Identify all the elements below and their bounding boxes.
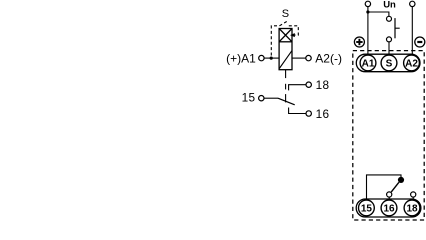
contact lever to NC [391, 182, 399, 192]
svg-text:S: S [386, 59, 393, 70]
fixed contact 18 stub and wire [289, 85, 306, 91]
terminal 16 [381, 200, 397, 216]
svg-text:S: S [282, 8, 289, 20]
polarity minus symbol [415, 37, 425, 47]
top terminal stadium block [356, 54, 420, 71]
junction dot on supply wire [366, 10, 369, 13]
switch S actuator tick [395, 27, 400, 29]
svg-text:Un: Un [383, 0, 396, 11]
wire A2 [292, 57, 306, 59]
supply terminal circle right (-) feed [410, 1, 415, 6]
delay diagonal inside coil body [279, 51, 292, 69]
terminal 18 [404, 200, 420, 216]
svg-text:18: 18 [316, 78, 330, 92]
terminal S [381, 55, 397, 71]
svg-text:A2(-): A2(-) [315, 52, 342, 66]
svg-text:(+)A1: (+)A1 [226, 52, 256, 66]
svg-text:15: 15 [361, 204, 373, 215]
branch wire to switch S [368, 12, 389, 16]
contact lever 15 common [278, 98, 295, 105]
wire A1 [264, 57, 279, 59]
pivot dot [398, 177, 404, 183]
terminal circle A1 [259, 55, 264, 60]
terminal circle 18 [306, 82, 311, 87]
svg-text:15: 15 [242, 91, 256, 105]
svg-text:16: 16 [383, 204, 395, 215]
relay coil box with X (off-delay timing relay U1) [279, 29, 292, 70]
wire from switch to S terminal [388, 42, 390, 55]
dashed link right section with corner down to arrow [289, 26, 299, 35]
junction dot on A1 wire [270, 57, 273, 60]
wire 15 [264, 97, 278, 99]
switch S upper contact circle [387, 16, 392, 21]
bottom terminal stadium block [356, 199, 421, 217]
dashed switch lever segment [280, 21, 288, 26]
svg-text:A1: A1 [362, 59, 375, 70]
wire from right supply to A2 terminal [411, 7, 413, 55]
dashed module outline [353, 51, 424, 220]
switch S blade (closed) [394, 18, 396, 38]
NC contact circle above 16 [387, 192, 392, 197]
terminal circle A2 [306, 55, 311, 60]
polarity plus symbol [354, 37, 364, 47]
NO contact circle above 18 [411, 192, 416, 197]
arrowhead into coil box [290, 33, 295, 37]
terminal 15 [359, 200, 375, 216]
output contact: wire from 15 up and over to pivot [367, 175, 402, 200]
fixed contact 16 stub and wire [289, 108, 306, 114]
terminal A1 [360, 55, 376, 71]
svg-text:18: 18 [406, 204, 418, 215]
supply terminal circle left (+) feed [365, 1, 370, 6]
dashed mechanical link from coil bottom to contact lever [285, 70, 287, 78]
svg-text:A2: A2 [405, 59, 418, 70]
terminal A2 [404, 55, 420, 71]
switch S lower contact circle [387, 37, 392, 42]
dashed control link from A1 junction up and over to coil [271, 26, 279, 56]
terminal circle 16 [306, 111, 311, 116]
terminal circle 15 [259, 96, 264, 101]
svg-text:16: 16 [316, 107, 330, 121]
wire from left supply to A1 terminal [367, 7, 369, 55]
